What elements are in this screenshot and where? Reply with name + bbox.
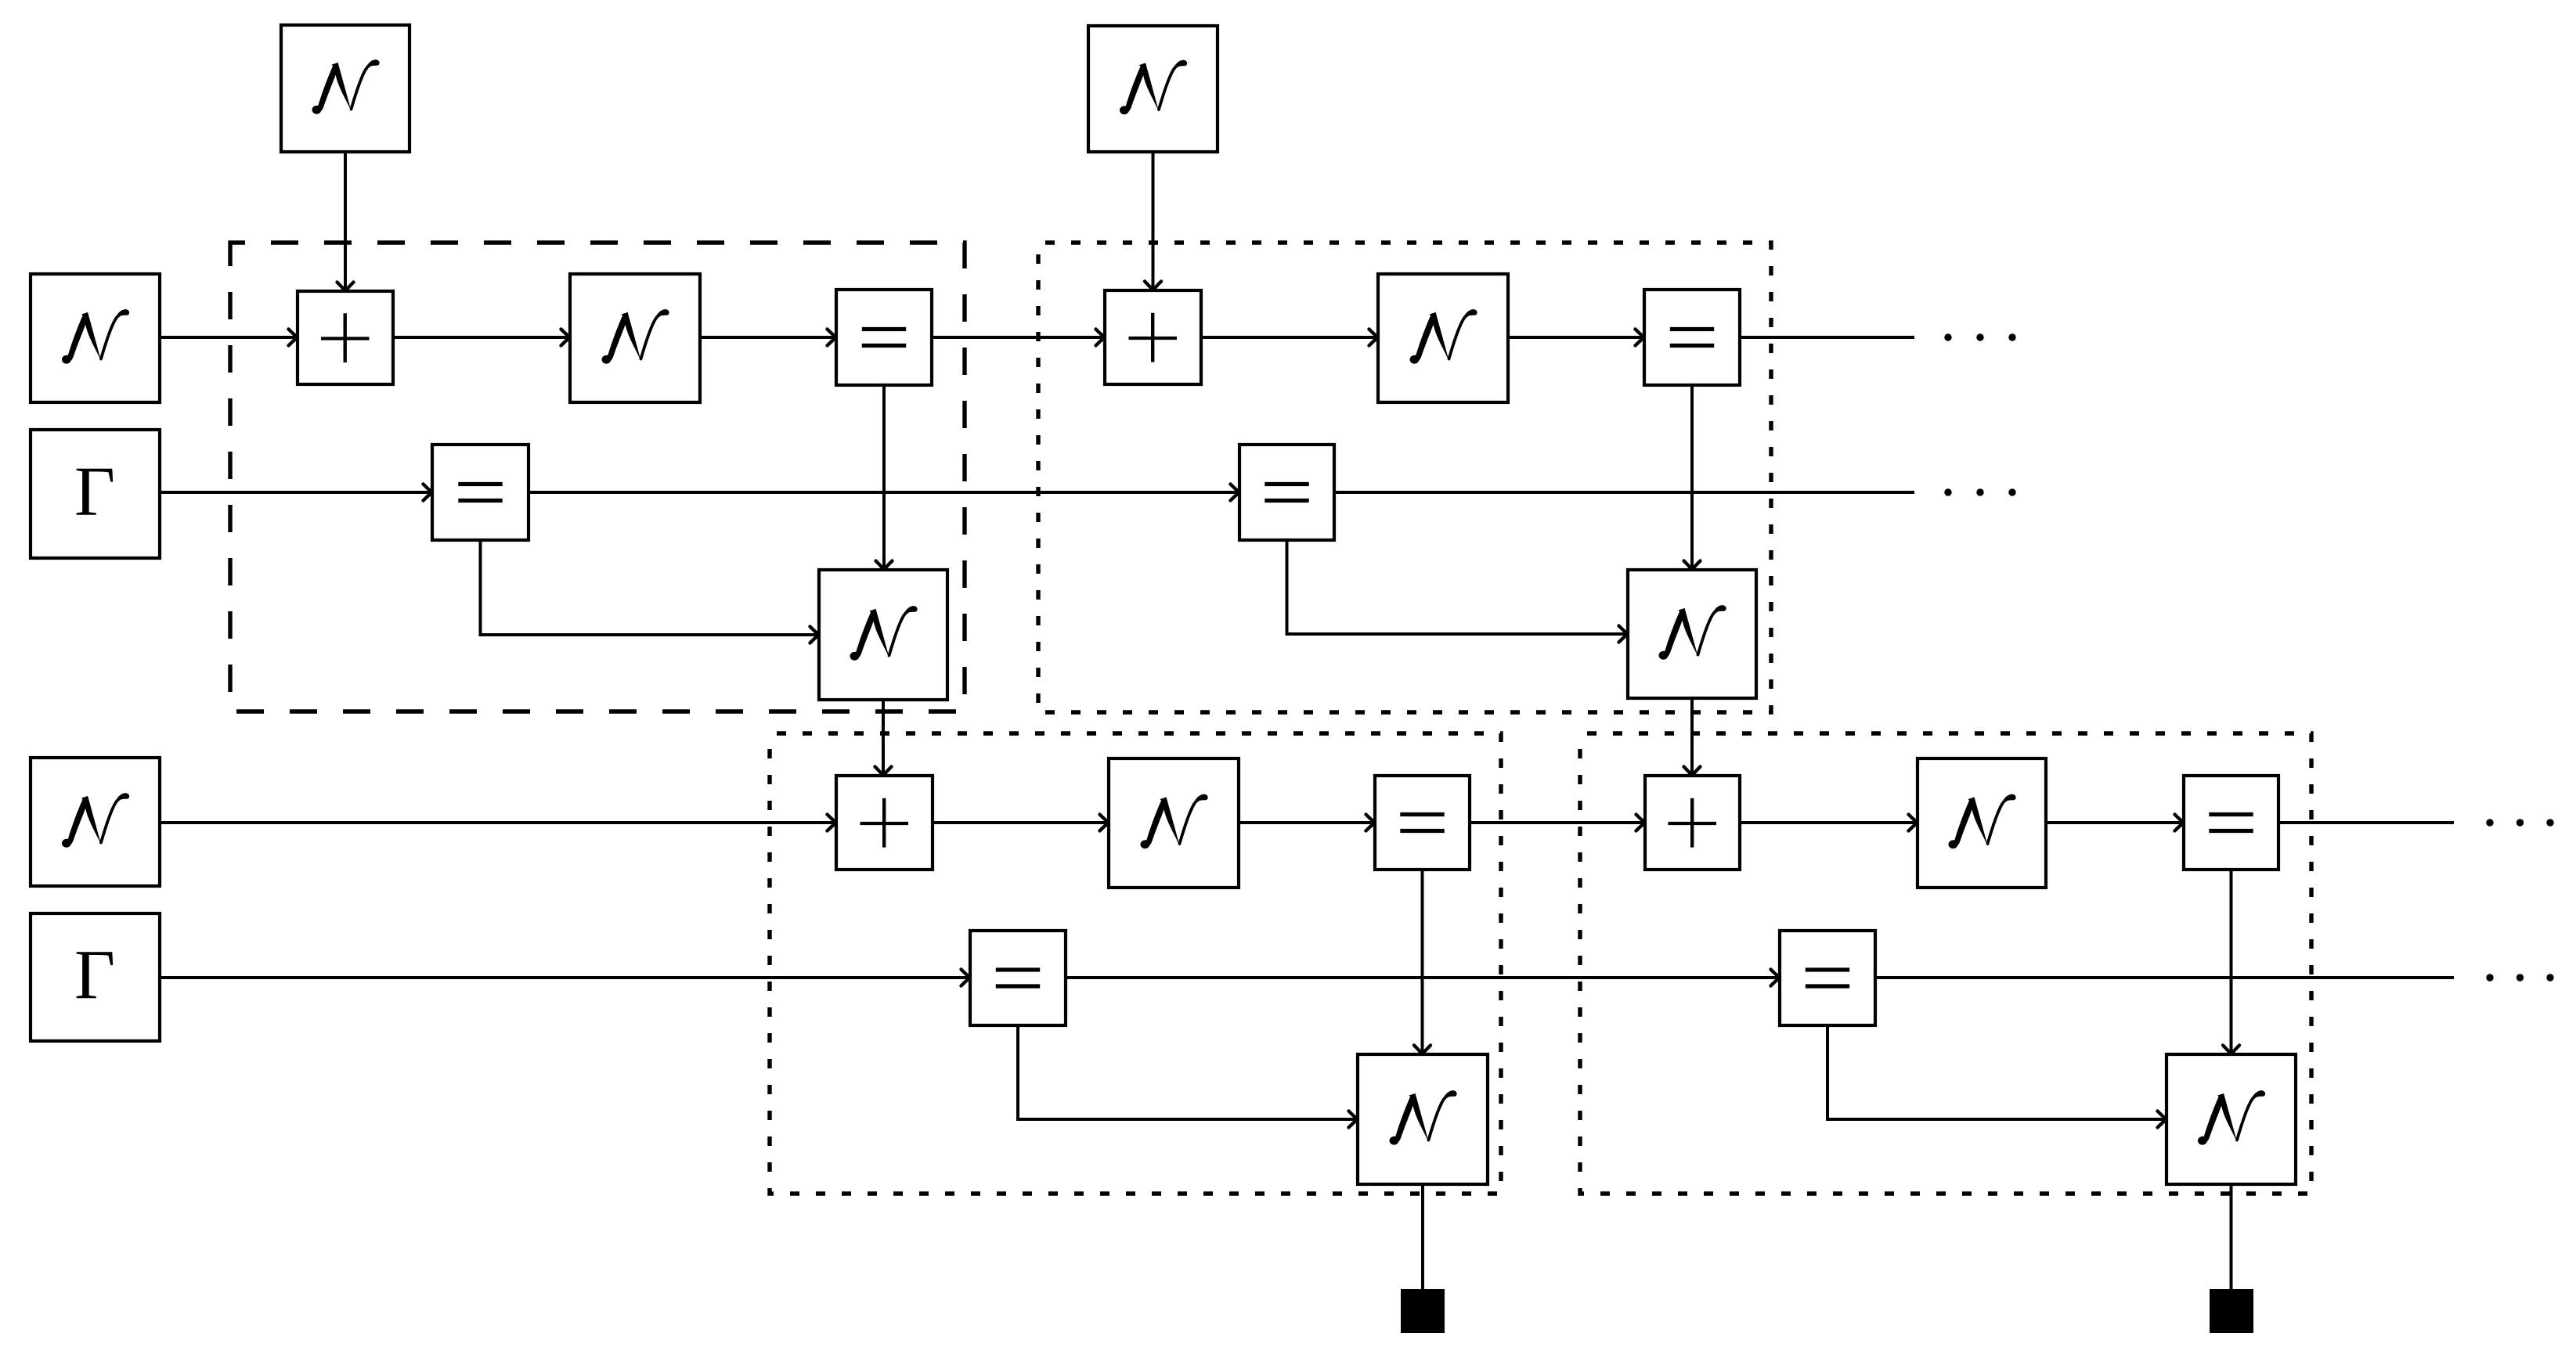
svg-text:Γ: Γ — [74, 937, 115, 1014]
wire row2: N13 down to measurement M2 — [2230, 1183, 2233, 1293]
wire row2: equals E7 down to N13 — [2223, 870, 2239, 1054]
box N10 (noise, group 3) — [1109, 758, 1239, 888]
svg-text:Γ: Γ — [74, 453, 115, 531]
box N3 (noise, group 1) — [570, 274, 700, 402]
box P3 (plus, group 3) — [836, 776, 933, 870]
group frame G3 (dotted unit cell, row 2) — [770, 733, 1501, 1194]
wire row1 N-line: equals E1 to plus P2 — [932, 330, 1105, 346]
box E2 (equals, group 1 Gamma-line) — [432, 445, 529, 540]
box N6 (noise, group 2) — [1378, 274, 1508, 402]
wire row2 N-line: N12 to equals E7 — [2046, 815, 2184, 831]
box P4 (plus, group 4) — [1645, 776, 1740, 870]
wire row2 N-line: N10 to equals E5 — [1239, 815, 1375, 831]
wire row2 N-line: input N8 to plus P3 — [160, 815, 836, 831]
wire row1: equals E1 down to N4 — [876, 385, 893, 570]
wire row2 Gamma-line: Gamma G2 to equals E6 — [160, 970, 970, 986]
wire row1: top N2 down to plus P1 — [337, 152, 354, 291]
group frame G2 (dotted unit cell, row 1) — [1038, 243, 1771, 712]
wire row1 Gamma-line: Gamma G1 to equals E2 — [160, 484, 432, 501]
wire row1: top N5 down to plus P2 — [1145, 152, 1161, 290]
box N8 (input noise, row 2) — [31, 758, 160, 886]
wire row2: equals E8 elbow to N13 — [1827, 1025, 2167, 1128]
box N4 (noise, group 1 bottom) — [819, 570, 947, 700]
wire row1 N-line: input N1 to plus P1 — [160, 330, 298, 346]
wire row1: equals E3 down to N7 — [1684, 385, 1701, 570]
wire row2 N-line: equals E5 to plus P4 — [1470, 815, 1645, 831]
box N13 (noise, group 4 bottom) — [2167, 1054, 2296, 1184]
wire row1 N-line: plus P2 to N6 — [1201, 330, 1378, 346]
box N1 (input noise, row 1) — [31, 274, 160, 402]
box E1 (equals, group 1 N-line) — [836, 290, 932, 385]
box E4 (equals, group 2 Gamma-line) — [1239, 445, 1334, 540]
box E3 (equals, group 2 N-line) — [1644, 290, 1740, 385]
wire row1 N-line: N6 to equals E3 — [1508, 330, 1644, 346]
measurement square M2 — [2210, 1289, 2253, 1333]
box E6 (equals, group 3 Gamma-line) — [970, 931, 1066, 1025]
wire row1 N-line: plus P1 to N3 — [393, 330, 570, 346]
box E5 (equals, group 3 N-line) — [1375, 776, 1470, 870]
group frame G1 (dashed unit cell, row 1) — [230, 243, 965, 711]
wire row2 N-line: plus P3 to N10 — [933, 815, 1109, 831]
box N2 (top noise source 1) — [281, 25, 409, 152]
box G1 (input Gamma, row 1) — [31, 430, 160, 558]
wire row2: equals E5 down to N11 — [1414, 870, 1431, 1054]
box E7 (equals, group 4 N-line) — [2184, 776, 2278, 870]
box P2 (plus, group 2) — [1105, 290, 1201, 384]
wire feedback: N7 down to plus P4 — [1684, 698, 1701, 776]
ellipsis dots row1 N-line — [1944, 333, 2015, 340]
box P1 (plus, group 1) — [298, 291, 393, 384]
wire row1: equals E4 elbow to N7 — [1287, 540, 1629, 643]
wire row2 N-line: equals E7 to ellipsis — [2278, 821, 2454, 824]
ellipsis dots row1 Gamma-line — [1944, 488, 2015, 495]
wire row2 N-line: plus P4 to N12 — [1740, 815, 1918, 831]
ellipsis dots row2 Gamma-line — [2486, 974, 2553, 981]
wire row2: equals E6 elbow to N11 — [1018, 1025, 1358, 1128]
wire row1 N-line: equals E3 to ellipsis — [1740, 336, 1914, 339]
wire row2 Gamma-line: equals E6 to equals E8 — [1066, 970, 1780, 986]
box E8 (equals, group 4 Gamma-line) — [1780, 931, 1875, 1025]
box N5 (top noise source 2) — [1088, 26, 1218, 152]
ellipsis dots row2 N-line — [2486, 819, 2553, 826]
box N12 (noise, group 4) — [1918, 758, 2046, 888]
wire feedback: N4 down to plus P3 — [875, 700, 892, 776]
box G2 (input Gamma, row 2) — [31, 913, 160, 1041]
measurement square M1 — [1401, 1289, 1445, 1333]
box N11 (noise, group 3 bottom) — [1358, 1054, 1488, 1184]
wire row2: N11 down to measurement M1 — [1421, 1183, 1424, 1293]
wire row1 Gamma-line: equals E2 to equals E4 — [529, 484, 1239, 501]
wire row1: equals E2 elbow to N4 — [481, 540, 820, 643]
wire row1 N-line: N3 to equals E1 — [700, 330, 836, 346]
box N7 (noise, group 2 bottom) — [1628, 570, 1756, 698]
wire row2 Gamma-line: equals E8 to ellipsis — [1875, 976, 2454, 979]
group frame G4 (dotted unit cell, row 2) — [1580, 733, 2311, 1194]
wire row1 Gamma-line: equals E4 to ellipsis — [1334, 491, 1914, 494]
